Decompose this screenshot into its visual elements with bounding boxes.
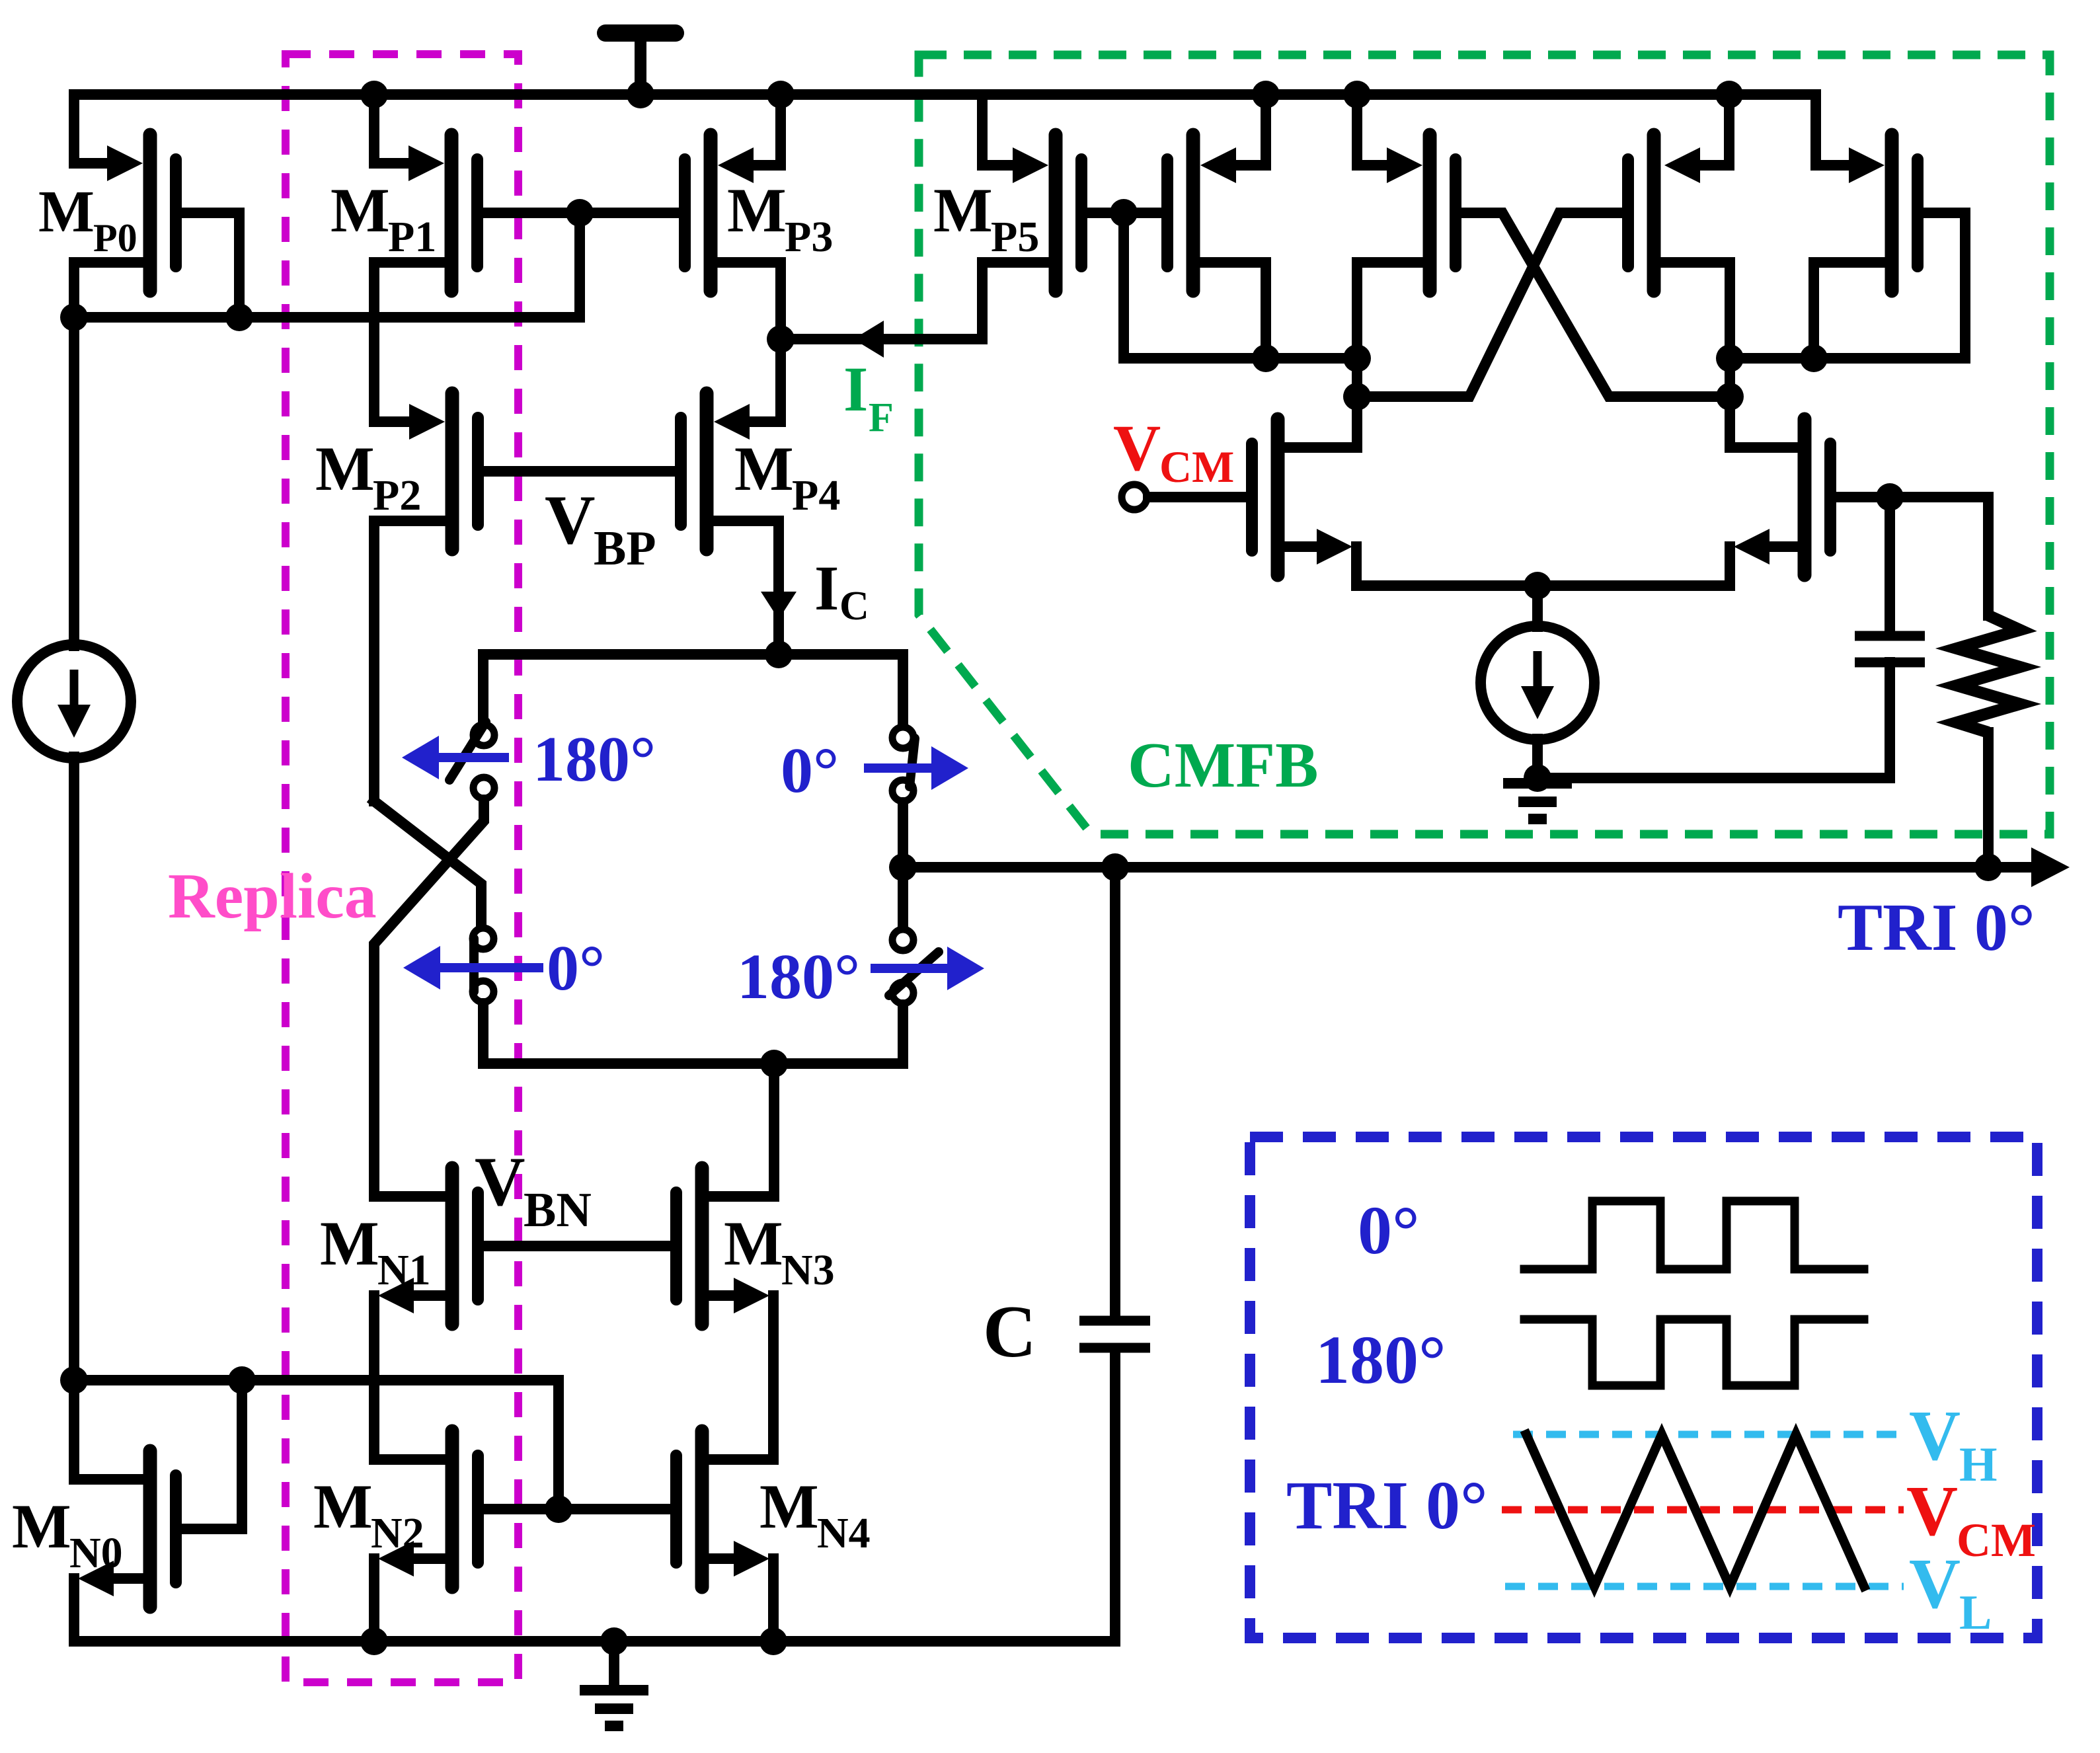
svg-text:CM: CM	[1957, 1514, 2036, 1567]
node dot MP0 gate	[225, 303, 253, 331]
transistor MP3 source arrow (PMOS)	[718, 147, 754, 183]
switch UL 180deg top contact	[473, 724, 494, 746]
switch UR 0deg top contact	[892, 727, 914, 748]
svg-text:0°: 0°	[781, 735, 839, 806]
node dot tail	[1524, 572, 1551, 600]
switch LL 0deg bottom contact	[473, 981, 494, 1002]
wire IC node line to switches	[483, 649, 903, 660]
node dot MP5 gate node	[1110, 199, 1138, 227]
transistor MP1 channel	[445, 135, 459, 291]
svg-text:M: M	[759, 1471, 819, 1541]
node dot CMFB diode PMOS drain	[1252, 344, 1280, 372]
wire node line corner to UL switch	[478, 654, 488, 723]
node dot MP3 source on rail	[767, 81, 795, 108]
transistor CMFB diode PMOS gate bar	[1161, 159, 1173, 266]
wire right diode node line	[1730, 353, 1965, 364]
wire MN2 drain	[374, 1454, 446, 1465]
wire MP4 drain with IC	[713, 521, 779, 654]
transistor MP0 source arrow (PMOS)	[107, 145, 143, 181]
transistor MP4 gate bar	[675, 418, 687, 525]
wire CMFB right diode PMOS drain	[1814, 262, 1885, 358]
wire current source to MN0 drain	[69, 757, 79, 1479]
wire MN3 drain	[709, 1191, 774, 1202]
svg-text:N2: N2	[371, 1509, 424, 1557]
wire MN1 source to MN2	[397, 1290, 446, 1301]
svg-text:V: V	[475, 1143, 525, 1220]
svg-text:I: I	[843, 354, 868, 424]
node dot MN0 bias node	[60, 1366, 88, 1394]
wire node line corner to UR switch	[898, 654, 908, 726]
wire MP3 source from VDD	[740, 95, 781, 165]
wire UR switch to TRI node	[898, 802, 908, 867]
waveform triangle TRI 0deg	[1526, 1434, 1864, 1586]
wire MN4 drain	[709, 1454, 773, 1465]
svg-text:N1: N1	[377, 1246, 431, 1294]
svg-text:M: M	[933, 175, 993, 245]
switch LR 180deg bottom contact	[892, 982, 914, 1003]
Replica region dashed box	[286, 54, 518, 1682]
dashed level VCM	[1502, 1506, 1904, 1514]
switch UR 0deg bottom contact	[892, 780, 914, 801]
svg-text:CM: CM	[1159, 442, 1234, 492]
wire CMFB cross PMOS right source	[1687, 95, 1729, 165]
wire TRI node to capacitor C	[1110, 867, 1120, 1316]
svg-text:180°: 180°	[737, 941, 860, 1013]
svg-text:Replica: Replica	[168, 861, 377, 932]
waveform square 180deg	[1524, 1319, 1864, 1385]
transistor MN3 channel	[695, 1168, 709, 1324]
svg-text:C: C	[983, 1291, 1036, 1373]
wire CMFB cross PMOS left source	[1357, 95, 1399, 165]
transistor CMFB right diode PMOS channel	[1885, 135, 1899, 291]
wire VCM to gate	[1148, 492, 1246, 502]
node dot CMFB Pa source on rail	[1252, 81, 1280, 108]
wire CMFB NMOS right source to tail	[1761, 541, 1798, 552]
svg-text:M: M	[727, 175, 787, 245]
CMFB region dashed box	[919, 55, 2050, 834]
wire bottom line to MN3 drain	[769, 1064, 779, 1196]
node dot CMFB Pb source on rail	[1343, 81, 1371, 108]
node dot IC injection	[765, 641, 793, 668]
wire MN1 drain	[374, 1191, 446, 1202]
svg-text:C: C	[839, 584, 869, 629]
transistor MN4 source arrow (NMOS)	[734, 1541, 769, 1577]
wire LR switch to bottom node line	[898, 1005, 908, 1064]
arrow switch UL drive	[439, 753, 509, 762]
input VCM terminal circle	[1122, 485, 1147, 510]
svg-text:P1: P1	[388, 213, 436, 261]
transistor MP0 gate bar	[170, 159, 182, 266]
node dot right diode node	[1800, 344, 1828, 372]
transistor MN0 gate bar	[170, 1475, 182, 1582]
transistor MP5 source arrow (PMOS)	[1013, 147, 1048, 183]
node dot A-right	[1716, 344, 1744, 372]
node dot TRI at cap C	[1101, 853, 1129, 881]
arrow IF current direction	[853, 321, 884, 358]
transistor CMFB NMOS left channel	[1271, 419, 1285, 575]
capacitor C bottom plate	[1079, 1343, 1150, 1353]
ground symbol CMFB	[1503, 778, 1572, 789]
transistor MP5 channel	[1049, 135, 1063, 291]
svg-text:M: M	[734, 434, 794, 504]
transistor MP2 channel	[446, 393, 459, 549]
node dot MN gate line	[545, 1495, 572, 1523]
node dot rail MN4	[759, 1627, 787, 1655]
wire mid node to LR switch	[898, 867, 908, 928]
wire gate node down to diode line	[1124, 213, 1357, 358]
transistor MP1 gate bar	[471, 159, 483, 266]
svg-text:M: M	[38, 179, 95, 245]
VDD power symbol	[635, 34, 646, 95]
wire bias node to current source	[69, 317, 79, 646]
svg-text:TRI 0°: TRI 0°	[1838, 890, 2035, 965]
wire feedback ground line to cap bottom	[1537, 662, 1890, 778]
transistor MN0 source arrow (NMOS)	[78, 1561, 114, 1596]
transistor MN4 channel	[695, 1431, 709, 1587]
transistor MN3 source arrow (NMOS)	[734, 1278, 769, 1313]
wire CMFB cross PMOS left drain	[1357, 262, 1423, 397]
wire resistor to TRI output line	[1983, 732, 1994, 867]
wire gate line MP5-CMFB diode PMOS	[1087, 208, 1161, 218]
transistor CMFB diode PMOS source arrow	[1200, 147, 1236, 183]
node dot A-left	[1343, 344, 1371, 372]
svg-text:V: V	[1909, 1397, 1961, 1475]
node dot IF at MP3 drain	[767, 325, 795, 353]
wire capacitor C to ground rail	[74, 1352, 1115, 1641]
svg-text:V: V	[1909, 1545, 1961, 1623]
node dot rail ground	[600, 1627, 628, 1655]
svg-text:0°: 0°	[547, 933, 605, 1004]
wire CMFB NMOS left source to tail	[1284, 541, 1322, 552]
transistor MN2 gate bar	[472, 1456, 484, 1563]
wire CMFB NMOS right drain	[1730, 442, 1798, 453]
wire MN0 gate to bias node	[182, 1380, 242, 1529]
svg-text:TRI 0°: TRI 0°	[1286, 1467, 1488, 1543]
wire gate line MP1-MP3	[483, 208, 674, 218]
wire VBP gate line	[484, 466, 675, 477]
transistor CMFB NMOS left gate bar	[1246, 444, 1258, 551]
wire CMFB cross PMOS left gate to X	[1461, 213, 1730, 397]
switch UR 0deg blade closed	[910, 738, 915, 787]
wire MP5 source from VDD	[982, 95, 1025, 165]
wire LL switch to bottom node line	[483, 1003, 903, 1064]
wire bias node line	[74, 213, 580, 317]
node dot MP1 source on rail	[360, 81, 388, 108]
node dot resistor-output	[1974, 853, 2002, 881]
node dot rail MN2	[360, 1627, 388, 1655]
transistor CMFB right diode PMOS source arrow	[1849, 147, 1885, 183]
arrow IC current direction	[761, 592, 797, 619]
waveform legend dashed box	[1250, 1137, 2037, 1638]
node dot ground node	[1524, 764, 1551, 792]
wire MP5 drain to IF line	[781, 262, 1049, 339]
transistor MP5 gate bar	[1075, 159, 1087, 266]
resistor CMFB zigzag	[1957, 615, 2020, 732]
dashed level VH	[1513, 1431, 1904, 1438]
wire CMFB NMOS right gate	[1836, 497, 1988, 615]
transistor CMFB cross PMOS right channel	[1647, 135, 1661, 291]
wire MP2 drain down to replica cross	[374, 521, 446, 801]
svg-text:M: M	[320, 1208, 379, 1278]
wire MN gate line to MN0 node	[74, 1380, 559, 1509]
svg-text:F: F	[869, 395, 894, 440]
arrow switch LR drive	[871, 964, 947, 973]
wire tail to current source	[1532, 586, 1543, 627]
svg-text:P4: P4	[792, 471, 840, 520]
wire MN0 drain	[74, 1474, 143, 1485]
wire CMFB cross PMOS right drain	[1660, 262, 1730, 448]
svg-text:M: M	[315, 434, 375, 504]
switch UL 180deg bottom contact	[473, 777, 494, 799]
transistor MP1 source arrow (PMOS)	[408, 145, 444, 181]
dashed level VL	[1505, 1583, 1904, 1590]
svg-text:M: M	[724, 1208, 783, 1278]
svg-text:N3: N3	[781, 1246, 835, 1294]
transistor MP4 channel	[700, 393, 714, 549]
node dot B-left	[1343, 383, 1371, 410]
transistor MP4 source arrow (PMOS)	[714, 404, 750, 440]
transistor CMFB cross PMOS left gate bar	[1450, 159, 1461, 266]
transistor CMFB NMOS right gate bar	[1824, 444, 1836, 551]
transistor MP3 gate bar	[679, 159, 691, 266]
transistor MN4 gate bar	[670, 1456, 682, 1563]
node dot CMFB Pc source on rail	[1715, 81, 1743, 108]
current source IB	[17, 644, 131, 758]
transistor CMFB diode PMOS channel	[1186, 135, 1200, 291]
wire MP1 source from VDD	[374, 95, 420, 163]
node dot MP0 drain	[60, 303, 88, 331]
node dot gate-cap node	[1876, 483, 1904, 511]
transistor MN0 channel	[143, 1451, 157, 1607]
transistor CMFB NMOS left source arrow	[1317, 529, 1352, 565]
node dot gate line	[566, 199, 594, 227]
transistor CMFB cross PMOS left channel	[1423, 135, 1437, 291]
wire MN2-MN4 gate line	[484, 1504, 670, 1514]
svg-text:N0: N0	[69, 1529, 123, 1577]
svg-text:CMFB: CMFB	[1128, 730, 1319, 801]
wire replica cross UL-switch to MN1 drain	[374, 800, 484, 1196]
transistor MN3 gate bar	[670, 1192, 682, 1300]
ground symbol main	[580, 1685, 648, 1695]
transistor CMFB NMOS right channel	[1798, 419, 1812, 575]
svg-text:M: M	[331, 175, 390, 245]
wire CMFB NMOS left drain	[1284, 397, 1357, 448]
transistor MP3 channel	[704, 135, 718, 291]
svg-text:V: V	[545, 481, 596, 559]
transistor CMFB cross PMOS right source arrow	[1664, 147, 1700, 183]
arrow switch LL drive	[440, 963, 543, 972]
svg-text:I: I	[814, 553, 839, 623]
wire MP1 drain to MP2 source	[374, 262, 445, 422]
wire MN4 source to rail	[709, 1553, 747, 1564]
switch LR 180deg top contact	[892, 929, 914, 951]
wire replica cross MP2-drain to LL switch	[374, 801, 481, 928]
switch LL 0deg top contact	[473, 928, 494, 949]
node dot bottom line to MN3	[760, 1050, 788, 1077]
svg-text:BN: BN	[524, 1183, 592, 1237]
wire MP4 source from IF node	[736, 339, 781, 422]
svg-text:V: V	[1113, 411, 1161, 485]
wire ground rail	[74, 1636, 1115, 1647]
node dot TRI at switch	[889, 853, 917, 881]
transistor CMFB cross PMOS right gate bar	[1622, 159, 1634, 266]
transistor MP2 source arrow (PMOS)	[409, 404, 445, 440]
svg-text:M: M	[313, 1471, 373, 1541]
svg-text:N4: N4	[817, 1509, 871, 1557]
svg-text:M: M	[12, 1491, 71, 1561]
transistor MP0 channel	[143, 135, 157, 291]
wire VDD top rail	[74, 95, 1861, 165]
wire CMFB diode PMOS drain	[1200, 262, 1266, 358]
node dot VDD stem	[627, 81, 654, 108]
transistor CMFB cross PMOS left source arrow	[1387, 147, 1422, 183]
svg-text:180°: 180°	[1315, 1322, 1446, 1398]
svg-text:P3: P3	[785, 213, 833, 261]
current source CMFB tail	[1481, 626, 1594, 740]
capacitor CMFB top plate	[1855, 631, 1925, 641]
switch LL 0deg blade closed	[469, 939, 479, 992]
transistor MN2 source arrow (NMOS)	[378, 1541, 414, 1577]
transistor MN1 channel	[446, 1168, 459, 1324]
wire MN3 source to MN4	[709, 1290, 747, 1301]
svg-text:P5: P5	[991, 213, 1039, 261]
wire CMFB cross PMOS right gate to X	[1357, 213, 1622, 397]
wire CMFB right diode PMOS gate loop	[1924, 213, 1965, 358]
svg-text:P2: P2	[373, 471, 421, 520]
node dot MN0 gate node	[228, 1366, 256, 1394]
switch UL 180deg blade open	[449, 722, 486, 780]
wire current source to ground node	[1532, 739, 1543, 780]
svg-text:0°: 0°	[1358, 1192, 1420, 1268]
transistor CMFB right diode PMOS gate bar	[1912, 159, 1924, 266]
transistor MN1 source arrow (NMOS)	[378, 1278, 414, 1313]
transistor MP2 gate bar	[472, 418, 484, 525]
switch LR 180deg blade open	[889, 952, 939, 995]
svg-text:BP: BP	[594, 522, 656, 576]
capacitor C top plate	[1079, 1316, 1150, 1326]
wire cap top connection	[1885, 497, 1895, 631]
capacitor CMFB bottom plate	[1855, 658, 1925, 668]
wire MP0 gate to diode node	[182, 213, 239, 317]
wire VBN gate line	[484, 1241, 670, 1251]
node dot B-right	[1716, 383, 1744, 410]
svg-text:L: L	[1959, 1586, 1992, 1640]
wire TRI 0 output line	[903, 862, 2033, 873]
svg-text:P0: P0	[93, 216, 137, 260]
transistor CMFB NMOS right source arrow	[1734, 529, 1769, 565]
svg-text:H: H	[1959, 1438, 1998, 1492]
svg-text:V: V	[1906, 1472, 1958, 1551]
wire MP2 source	[374, 416, 421, 427]
transistor MN1 gate bar	[472, 1192, 484, 1300]
transistor MN2 channel	[446, 1431, 459, 1587]
arrow TRI output	[2031, 847, 2070, 887]
wire MN0 source to rail	[99, 1573, 143, 1584]
waveform square 0deg	[1524, 1201, 1864, 1269]
wire MP3 drain to IF node	[717, 262, 781, 339]
svg-text:180°: 180°	[533, 724, 656, 795]
wire MN2 source to rail	[397, 1553, 446, 1564]
wire MP0 source from VDD	[74, 95, 119, 163]
wire MP0 drain	[74, 262, 143, 317]
wire CMFB diode PMOS source from VDD	[1223, 95, 1266, 165]
arrow switch UR drive	[864, 763, 931, 773]
